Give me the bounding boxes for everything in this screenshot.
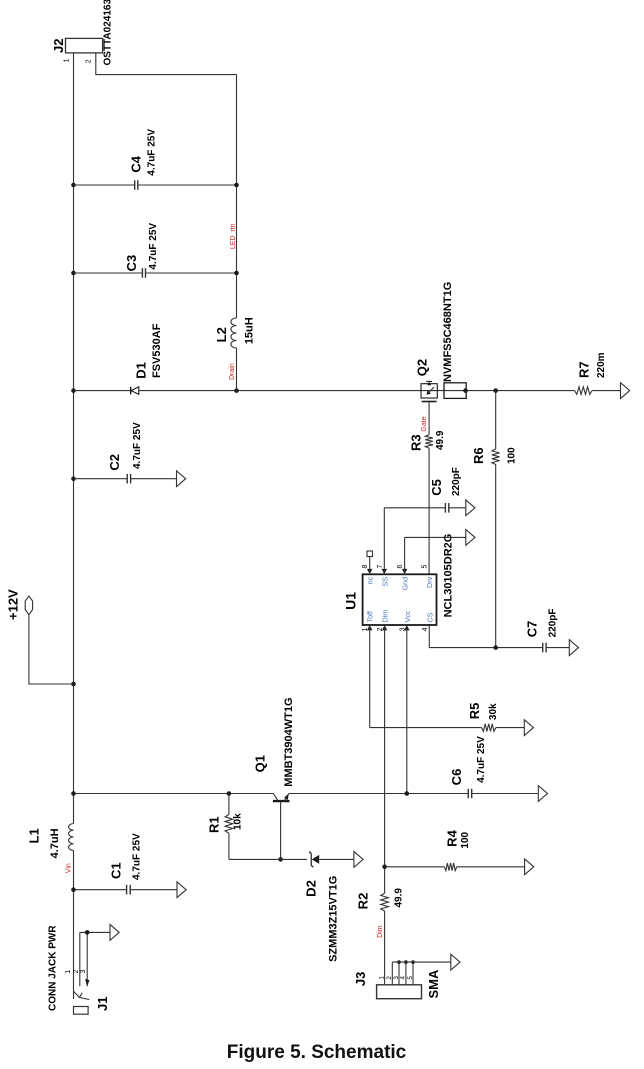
resistor R7 220m: [493, 352, 629, 398]
IC U1 NCL30105DR2G: [343, 534, 455, 632]
resistor R1 10k: [207, 791, 244, 859]
svg-text:6: 6: [397, 565, 404, 569]
svg-text:4.7uF 25V: 4.7uF 25V: [132, 422, 143, 469]
svg-text:4.7uF 25V: 4.7uF 25V: [147, 129, 158, 176]
capacitor C7 220pF on CS: [429, 608, 578, 655]
capacitor C3 4.7uF 25V: [71, 223, 239, 278]
svg-text:J1: J1: [95, 997, 110, 1011]
svg-text:220pF: 220pF: [451, 467, 462, 496]
svg-text:2: 2: [73, 970, 80, 974]
svg-text:SZMM3Z15VT1G: SZMM3Z15VT1G: [328, 876, 340, 962]
svg-text:J3: J3: [353, 972, 368, 986]
transistor Q1 symbol: [253, 697, 296, 861]
svg-text:8: 8: [362, 565, 369, 569]
svg-text:C7: C7: [525, 621, 540, 638]
capacitor C6 4.7uF 25V on Vcc: [405, 625, 548, 801]
resistor R5 30k on Toff: [370, 625, 534, 735]
svg-text:Q2: Q2: [415, 359, 430, 376]
power symbol +12V: [6, 589, 76, 686]
svg-text:NVMFS5C468NT1G: NVMFS5C468NT1G: [442, 282, 454, 382]
svg-text:R3: R3: [409, 434, 424, 451]
svg-text:NCL30105DR2G: NCL30105DR2G: [443, 534, 455, 618]
svg-text:49.9: 49.9: [394, 888, 405, 908]
capacitor C2 4.7uF 25V: [71, 422, 186, 487]
svg-text:C3: C3: [124, 255, 139, 272]
svg-text:4: 4: [422, 627, 429, 631]
resistor R3 49.9 gate: [409, 402, 446, 575]
svg-text:Vin: Vin: [66, 863, 73, 873]
svg-text:C1: C1: [109, 862, 124, 879]
svg-text:7: 7: [377, 565, 384, 569]
svg-text:49.9: 49.9: [435, 430, 446, 450]
svg-text:OSTTA024163: OSTTA024163: [103, 0, 114, 66]
svg-text:C6: C6: [449, 769, 464, 786]
svg-text:nc: nc: [366, 576, 375, 584]
svg-text:R2: R2: [356, 893, 371, 910]
svg-text:SS: SS: [380, 577, 389, 587]
svg-text:Toff: Toff: [366, 611, 375, 622]
svg-text:5: 5: [422, 565, 429, 569]
wire Drain net vertical: [237, 390, 422, 392]
svg-text:100: 100: [460, 831, 471, 848]
svg-text:R6: R6: [471, 447, 486, 464]
connector J1 CONN JACK PWR: [48, 925, 120, 1015]
svg-text:220m: 220m: [596, 352, 607, 378]
svg-text:4.7uF 25V: 4.7uF 25V: [476, 736, 487, 783]
svg-text:Dim: Dim: [377, 925, 384, 938]
svg-text:R1: R1: [207, 816, 222, 833]
no-connect pin 8 stub: [367, 551, 373, 574]
svg-text:Gate: Gate: [421, 416, 428, 431]
svg-text:R7: R7: [577, 361, 592, 378]
wire Dim net / resistor R2 49.9: [356, 625, 405, 984]
wire Vin top rail: [73, 53, 75, 999]
resistor R4 100: [385, 829, 534, 874]
svg-text:MMBT3904WT1G: MMBT3904WT1G: [283, 697, 295, 786]
svg-text:R4: R4: [445, 829, 460, 846]
transistor Q1 MMBT3904WT1G branch wire: [71, 791, 538, 796]
svg-text:2: 2: [86, 59, 93, 63]
svg-text:3: 3: [80, 970, 87, 974]
svg-text:4.7uF 25V: 4.7uF 25V: [132, 833, 143, 880]
svg-text:D1: D1: [134, 362, 149, 379]
svg-text:15uH: 15uH: [244, 317, 256, 344]
svg-text:Drv: Drv: [425, 576, 434, 588]
svg-text:C5: C5: [429, 479, 444, 496]
svg-text:Dim: Dim: [381, 610, 390, 623]
svg-text:1: 1: [65, 970, 72, 974]
connector J3 SMA: [353, 954, 460, 999]
svg-text:J2: J2: [51, 39, 66, 53]
inductor L1 4.7uH: [27, 824, 74, 859]
svg-text:D2: D2: [304, 880, 319, 897]
svg-text:30k: 30k: [488, 703, 499, 720]
svg-text:CS: CS: [425, 612, 434, 622]
resistor R6 100: [471, 391, 518, 648]
svg-text:4.7uH: 4.7uH: [49, 828, 61, 858]
wire LED_rtn net: [96, 53, 239, 393]
capacitor C4 4.7uF 25V: [71, 129, 239, 190]
svg-text:FSV530AF: FSV530AF: [151, 323, 163, 378]
svg-text:CONN JACK PWR: CONN JACK PWR: [48, 925, 59, 1011]
inductor L2 15uH: [214, 317, 256, 348]
svg-text:Drain: Drain: [229, 363, 236, 380]
svg-text:10k: 10k: [233, 813, 244, 830]
svg-text:Q1: Q1: [253, 755, 268, 772]
svg-text:L2: L2: [214, 327, 229, 342]
svg-text:L1: L1: [27, 828, 42, 843]
svg-text:SMA: SMA: [426, 969, 441, 999]
zener diode D2 SZMM3Z15VT1G: [229, 852, 363, 962]
svg-text:Vcc: Vcc: [403, 610, 412, 622]
svg-text:C2: C2: [107, 454, 122, 471]
svg-text:Figure 5. Schematic: Figure 5. Schematic: [227, 1042, 407, 1063]
svg-text:+12V: +12V: [6, 589, 21, 620]
connector J2 OSTTA024163: [51, 0, 114, 66]
svg-text:Gnd: Gnd: [401, 577, 410, 591]
capacitor C5 220pF on SS: [384, 467, 475, 574]
svg-text:220pF: 220pF: [548, 608, 559, 637]
svg-text:1: 1: [63, 58, 70, 62]
svg-text:C4: C4: [129, 155, 144, 172]
transistor Q2 NVMFS5C468NT1G: [415, 282, 575, 402]
svg-text:R5: R5: [467, 703, 482, 720]
svg-text:U1: U1: [343, 592, 359, 610]
svg-text:100: 100: [507, 447, 518, 464]
capacitor C1 4.7uF 25V: [71, 833, 186, 898]
svg-text:4.7uF 25V: 4.7uF 25V: [148, 223, 159, 270]
diode D1 FSV530AF: [71, 323, 236, 394]
ground of U1 pin 6: [405, 530, 475, 575]
